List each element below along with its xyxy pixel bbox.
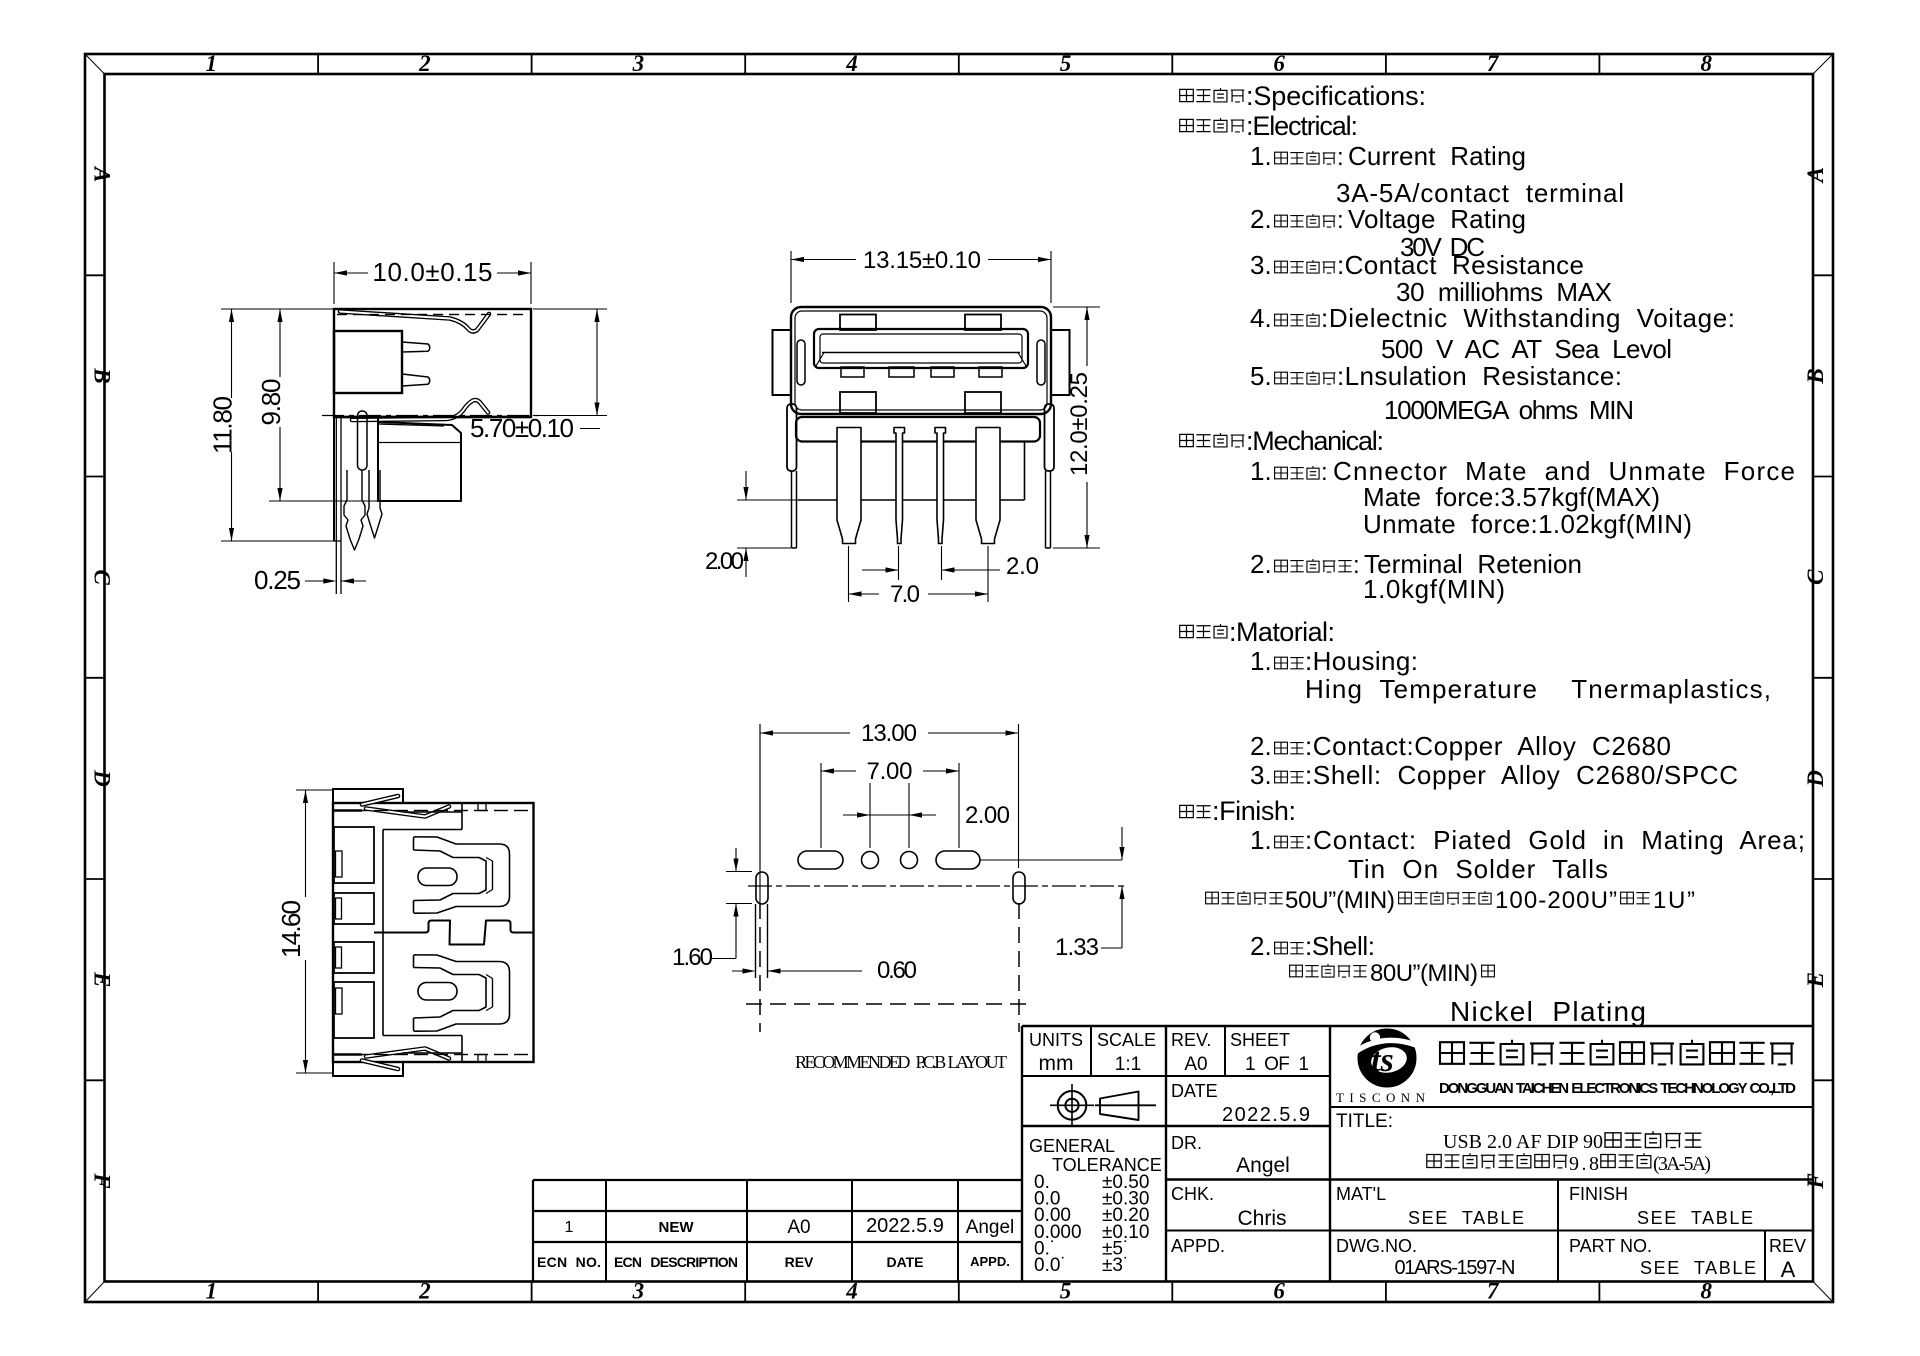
side view: hidden line top redraw bbox=[337, 314, 528, 316]
svg-text:12.0±0.25: 12.0±0.25 bbox=[1066, 372, 1093, 476]
svg-text:500 V AC AT Sea Levol: 500 V AC AT Sea Levol bbox=[1381, 334, 1672, 364]
svg-text::Mechanical:: :Mechanical: bbox=[1246, 426, 1384, 456]
svg-text:5.: 5. bbox=[1250, 361, 1272, 391]
svg-text:Tin On Solder Talls: Tin On Solder Talls bbox=[1348, 854, 1608, 884]
front view: right side tab bbox=[1045, 404, 1055, 471]
svg-text:11.80: 11.80 bbox=[208, 396, 238, 454]
top view: main outline bbox=[333, 803, 534, 1062]
pcb: side slot right bbox=[1013, 872, 1025, 904]
svg-text:REV: REV bbox=[1769, 1236, 1806, 1256]
dimension 10.0±0.15 bbox=[333, 262, 335, 304]
svg-text:2: 2 bbox=[418, 1279, 431, 1304]
svg-text:DATE: DATE bbox=[886, 1254, 923, 1270]
top view: plastic divider bbox=[382, 830, 384, 1036]
front view: pin 4 bbox=[976, 428, 1000, 544]
dimension 2.00 left bbox=[737, 499, 830, 501]
pcb: dimension 0.60 bbox=[732, 970, 751, 972]
projection symbol cone bbox=[1095, 1104, 1156, 1106]
svg-text:F: F bbox=[1803, 1173, 1828, 1189]
svg-text:ECN NO.: ECN NO. bbox=[537, 1254, 601, 1270]
logo circle bbox=[1358, 1029, 1416, 1087]
svg-text:mm: mm bbox=[1039, 1052, 1074, 1075]
svg-text:SHEET: SHEET bbox=[1230, 1030, 1290, 1050]
svg-text:1.: 1. bbox=[1250, 646, 1272, 676]
svg-text:50U”(MIN): 50U”(MIN) bbox=[1285, 887, 1395, 914]
side view: fork pin 2 bbox=[367, 470, 382, 538]
top view: central band zigzag bbox=[374, 921, 533, 945]
front view: left leg bbox=[791, 471, 793, 548]
svg-text:1U”: 1U” bbox=[1653, 887, 1695, 914]
top view: bottom latch bbox=[362, 1061, 398, 1070]
pcb: left vertical line bbox=[759, 724, 761, 903]
pcb: dimension 1.33 bbox=[1121, 827, 1123, 860]
side view: slot in leg bbox=[358, 411, 368, 470]
side view: bottom latch spring bbox=[352, 400, 488, 420]
svg-text:1.60: 1.60 bbox=[672, 944, 713, 971]
side view: lower housing body bbox=[378, 417, 461, 501]
projection symbol circle bbox=[1058, 1091, 1087, 1120]
front view: pin 3 bbox=[935, 428, 946, 544]
svg-text:RECOMMENDED P.C.B LAYOUT: RECOMMENDED P.C.B LAYOUT bbox=[795, 1052, 1007, 1072]
svg-text:ECN DESCRIPTION: ECN DESCRIPTION bbox=[614, 1254, 738, 1270]
dimension 2.0 bottom bbox=[898, 546, 900, 580]
svg-text:3.: 3. bbox=[1250, 250, 1272, 280]
svg-text:14.60: 14.60 bbox=[276, 900, 306, 958]
top view: dashed redraw bbox=[334, 810, 533, 812]
top view: top cap bbox=[333, 789, 403, 803]
svg-text:10.0±0.15: 10.0±0.15 bbox=[373, 257, 493, 287]
dimension 7.0 bbox=[848, 546, 850, 602]
svg-text:Chris: Chris bbox=[1237, 1207, 1286, 1230]
svg-text:UNITS: UNITS bbox=[1029, 1030, 1083, 1050]
dimension 5.70±0.10 bbox=[533, 308, 607, 310]
svg-text:Angel: Angel bbox=[966, 1217, 1015, 1238]
svg-text::Shell:: :Shell: bbox=[1305, 931, 1375, 961]
front view: rear pedestal bbox=[798, 499, 1025, 501]
svg-text:C: C bbox=[1803, 569, 1828, 585]
svg-text:2.: 2. bbox=[1250, 931, 1272, 961]
drawing border inner frame bbox=[105, 74, 1814, 1282]
svg-text::Matorial:: :Matorial: bbox=[1229, 617, 1335, 647]
pcb: pad hole 2 bbox=[901, 852, 918, 869]
svg-text:DWG.NO.: DWG.NO. bbox=[1336, 1236, 1417, 1256]
svg-text:2.: 2. bbox=[1250, 731, 1272, 761]
top view: cell slots bbox=[336, 851, 343, 877]
side view: bottom centerline dash-dot bbox=[322, 415, 545, 417]
svg-text:2.: 2. bbox=[1250, 204, 1272, 234]
pcb: centerline bbox=[748, 885, 1128, 887]
svg-text:NEW: NEW bbox=[659, 1219, 695, 1236]
svg-text:01ARS-1597-N: 01ARS-1597-N bbox=[1395, 1257, 1516, 1279]
svg-text::: : bbox=[1337, 207, 1344, 234]
front view: lower body bbox=[796, 417, 1040, 442]
svg-text:Nickel Plating: Nickel Plating bbox=[1450, 996, 1646, 1027]
svg-text:TISCONN: TISCONN bbox=[1336, 1090, 1432, 1105]
svg-text:Angel: Angel bbox=[1236, 1154, 1290, 1177]
spec heading Electrical bbox=[1180, 119, 1194, 131]
svg-text:7: 7 bbox=[1487, 1279, 1500, 1304]
dimension 9.80 bbox=[269, 500, 378, 502]
side view: lower contact bbox=[402, 374, 430, 386]
company name chinese bbox=[1440, 1042, 1464, 1064]
svg-text:5.70±0.10: 5.70±0.10 bbox=[470, 413, 574, 443]
svg-text:1: 1 bbox=[206, 51, 218, 76]
svg-text:B: B bbox=[90, 367, 115, 383]
side view: fork pin 1 bbox=[344, 470, 365, 550]
front view: shell inner line bbox=[795, 311, 1047, 410]
front view: tongue bbox=[814, 329, 1028, 368]
top view: left contact cells bbox=[334, 827, 374, 883]
svg-text:8: 8 bbox=[1700, 51, 1712, 76]
side view: hidden line top bbox=[337, 314, 528, 316]
svg-text:E: E bbox=[1803, 972, 1828, 988]
border zone ticks bbox=[317, 54, 319, 74]
top view: dashed lines bbox=[334, 810, 533, 812]
pcb: pad slot 2 bbox=[936, 851, 980, 869]
svg-text:D: D bbox=[90, 769, 115, 787]
front view: shell outer bbox=[791, 307, 1051, 414]
svg-text::Contact:Copper Alloy C2680: :Contact:Copper Alloy C2680 bbox=[1305, 731, 1671, 761]
svg-text:A: A bbox=[90, 165, 115, 182]
svg-text:100-200U”: 100-200U” bbox=[1495, 887, 1617, 914]
svg-text:9.8: 9.8 bbox=[1569, 1153, 1599, 1175]
spec plating line mixed bbox=[1206, 892, 1219, 904]
svg-text:GENERAL: GENERAL bbox=[1029, 1136, 1115, 1156]
svg-text:SEE TABLE: SEE TABLE bbox=[1637, 1208, 1753, 1228]
dimension 0.25 bbox=[305, 580, 332, 582]
svg-text:1000MEGA ohms MIN: 1000MEGA ohms MIN bbox=[1384, 395, 1634, 425]
front view: pin 1 bbox=[837, 428, 861, 544]
front view: contact slots under tongue bbox=[841, 367, 864, 377]
svg-text:5: 5 bbox=[1060, 1279, 1072, 1304]
svg-text:0.0˙: 0.0˙ bbox=[1034, 1255, 1067, 1276]
svg-text::Electrical:: :Electrical: bbox=[1246, 111, 1358, 141]
svg-text:D: D bbox=[1803, 770, 1828, 788]
svg-text:1: 1 bbox=[565, 1219, 574, 1236]
svg-text:3.: 3. bbox=[1250, 760, 1272, 790]
svg-text:MAT'L: MAT'L bbox=[1336, 1184, 1386, 1204]
svg-text:7.0: 7.0 bbox=[890, 581, 920, 608]
dimension 14.60 bbox=[296, 789, 333, 791]
svg-text:5: 5 bbox=[1060, 51, 1072, 76]
svg-text:7: 7 bbox=[1487, 51, 1500, 76]
svg-text:0.25: 0.25 bbox=[254, 565, 301, 595]
svg-text:Voltage Rating: Voltage Rating bbox=[1348, 204, 1526, 234]
pcb: pad slot 1 bbox=[798, 851, 843, 869]
svg-text:ts: ts bbox=[1371, 1042, 1394, 1079]
svg-text:1.0kgf(MIN): 1.0kgf(MIN) bbox=[1363, 574, 1505, 604]
pcb: dimension 7.00 bbox=[820, 763, 822, 848]
svg-text:USB 2.0 AF DIP 90: USB 2.0 AF DIP 90 bbox=[1443, 1131, 1603, 1153]
pcb: side slot left bbox=[756, 872, 768, 904]
svg-text:9.80: 9.80 bbox=[256, 379, 286, 426]
side view: upper contact bbox=[402, 342, 430, 352]
top view: fork contact -1 bbox=[414, 955, 510, 1031]
svg-text:F: F bbox=[90, 1172, 115, 1188]
svg-text:2022.5.9: 2022.5.9 bbox=[866, 1215, 944, 1237]
pcb: reference line right bbox=[980, 859, 1122, 861]
svg-text:REV: REV bbox=[785, 1254, 814, 1270]
svg-text:SCALE: SCALE bbox=[1097, 1030, 1156, 1050]
svg-text:PART NO.: PART NO. bbox=[1569, 1236, 1652, 1256]
dimension 12.0±0.25 bbox=[1053, 306, 1100, 308]
svg-text:6: 6 bbox=[1273, 51, 1285, 76]
svg-text:B: B bbox=[1803, 368, 1828, 384]
svg-text:2.0: 2.0 bbox=[1006, 553, 1039, 580]
pcb: pad hole 1 bbox=[862, 852, 879, 869]
top view: bottom cap bbox=[333, 1062, 403, 1076]
svg-text:13.15±0.10: 13.15±0.10 bbox=[863, 247, 981, 274]
svg-text:4: 4 bbox=[845, 51, 858, 76]
svg-text:4.: 4. bbox=[1250, 303, 1272, 333]
svg-text:Current Rating: Current Rating bbox=[1348, 141, 1526, 171]
svg-text:DATE: DATE bbox=[1171, 1081, 1218, 1101]
svg-text:A: A bbox=[1803, 167, 1828, 184]
front view: right leg bbox=[1045, 471, 1047, 548]
svg-text:REV.: REV. bbox=[1171, 1030, 1211, 1050]
pcb: dimension 13.00 bbox=[759, 724, 761, 868]
side view: housing block bbox=[334, 331, 402, 393]
front view: left flange bbox=[773, 330, 792, 395]
front view: mid latch openings bbox=[840, 392, 876, 413]
svg-text:DONGGUAN TAICHEN ELECTRONICS: DONGGUAN TAICHEN ELECTRONICS TECHNOLOGY … bbox=[1439, 1080, 1796, 1097]
pcb: dimension 2.00 bbox=[869, 783, 871, 848]
svg-text:4: 4 bbox=[845, 1279, 858, 1304]
svg-text:(3A-5A): (3A-5A) bbox=[1653, 1153, 1711, 1175]
front view: top latch openings bbox=[840, 315, 876, 331]
svg-text:13.00: 13.00 bbox=[861, 720, 917, 747]
svg-text:A0: A0 bbox=[1184, 1054, 1207, 1075]
side view: shell outline bbox=[334, 309, 531, 417]
dimension 13.15±0.10 bbox=[790, 251, 792, 303]
svg-text:FINISH: FINISH bbox=[1569, 1184, 1628, 1204]
spec heading Mechanical bbox=[1180, 434, 1194, 446]
dimension 11.80 bbox=[221, 308, 334, 310]
svg-text:SEE TABLE: SEE TABLE bbox=[1408, 1208, 1524, 1228]
front view: left side tab bbox=[787, 404, 797, 471]
svg-text:3: 3 bbox=[632, 1279, 645, 1304]
svg-text:C: C bbox=[90, 569, 115, 585]
svg-text:1 OF 1: 1 OF 1 bbox=[1245, 1054, 1309, 1075]
svg-text:8: 8 bbox=[1700, 1279, 1712, 1304]
svg-text:3: 3 bbox=[632, 51, 645, 76]
svg-text::Contact Resistance: :Contact Resistance bbox=[1337, 250, 1584, 280]
svg-text::Shell: Copper Alloy C2680/: :Shell: Copper Alloy C2680/SPCC bbox=[1305, 760, 1738, 790]
front view: side slots bbox=[797, 340, 805, 385]
svg-text:0.60: 0.60 bbox=[877, 957, 917, 984]
svg-text:1.: 1. bbox=[1250, 456, 1272, 486]
svg-text::Specifications:: :Specifications: bbox=[1246, 81, 1426, 111]
svg-text:1.33: 1.33 bbox=[1055, 934, 1099, 961]
svg-text:E: E bbox=[90, 971, 115, 987]
svg-text:SEE TABLE: SEE TABLE bbox=[1640, 1258, 1756, 1278]
pcb: 0.60 feature lines bbox=[755, 904, 757, 978]
svg-text:6: 6 bbox=[1273, 1279, 1285, 1304]
spec shell plating mixed bbox=[1290, 965, 1303, 977]
svg-text:1: 1 bbox=[206, 1279, 218, 1304]
spec heading Finish bbox=[1180, 805, 1194, 817]
svg-text:2022.5.9: 2022.5.9 bbox=[1222, 1104, 1310, 1126]
svg-text:CHK.: CHK. bbox=[1171, 1184, 1214, 1204]
svg-text:APPD.: APPD. bbox=[970, 1254, 1010, 1269]
svg-text:Unmate force:1.02kgf(MIN): Unmate force:1.02kgf(MIN) bbox=[1363, 509, 1692, 539]
svg-text:7.00: 7.00 bbox=[867, 758, 913, 785]
top view: small top tabs bbox=[478, 803, 486, 811]
spec heading Material bbox=[1180, 625, 1194, 637]
svg-text:A: A bbox=[1781, 1257, 1796, 1282]
title block gridlines bbox=[1022, 1025, 1813, 1027]
svg-text::: : bbox=[1353, 552, 1360, 579]
title line 2 bbox=[1427, 1155, 1441, 1168]
svg-text:APPD.: APPD. bbox=[1171, 1236, 1225, 1256]
svg-text::: : bbox=[1321, 459, 1328, 486]
svg-text:DR.: DR. bbox=[1171, 1133, 1202, 1153]
svg-text:1.: 1. bbox=[1250, 825, 1272, 855]
svg-text:80U”(MIN): 80U”(MIN) bbox=[1370, 960, 1478, 987]
svg-text::Housing:: :Housing: bbox=[1305, 646, 1418, 676]
svg-text::Finish:: :Finish: bbox=[1212, 796, 1296, 826]
front view: pin 2 bbox=[894, 428, 905, 544]
svg-text::Contact: Piated Gold in M: :Contact: Piated Gold in Mating Area; bbox=[1305, 825, 1805, 855]
svg-text:±3˙: ±3˙ bbox=[1102, 1255, 1129, 1276]
front view: right flange bbox=[1051, 330, 1070, 395]
revision table grid bbox=[533, 1179, 1022, 1181]
svg-text::: : bbox=[1337, 144, 1344, 171]
pcb: dashed outline bbox=[759, 903, 761, 1032]
side view: thin shell leg bbox=[333, 417, 335, 541]
svg-text:TITLE:: TITLE: bbox=[1336, 1111, 1393, 1132]
svg-text:A0: A0 bbox=[787, 1217, 810, 1238]
svg-text:2.00: 2.00 bbox=[965, 802, 1010, 829]
border corner diagonals bbox=[85, 54, 105, 74]
svg-text:1:1: 1:1 bbox=[1115, 1054, 1141, 1075]
svg-text::Lnsulation Resistance:: :Lnsulation Resistance: bbox=[1337, 361, 1622, 391]
svg-text::Dielectnic Withstanding Voi: :Dielectnic Withstanding Voitage: bbox=[1321, 303, 1735, 333]
svg-text:Hing Temperature Tnermapla: Hing Temperature Tnermaplastics, bbox=[1305, 674, 1771, 704]
pcb: dimension 1.60 bbox=[726, 871, 752, 873]
spec heading Specifications bbox=[1180, 89, 1194, 101]
svg-text:2: 2 bbox=[418, 51, 431, 76]
svg-text:1.: 1. bbox=[1250, 141, 1272, 171]
side view: top latch spring bbox=[340, 312, 489, 332]
svg-text:2.00: 2.00 bbox=[705, 548, 744, 575]
svg-text:2.: 2. bbox=[1250, 549, 1272, 579]
top view: top latch bbox=[362, 796, 398, 805]
svg-text:Mate force:3.57kgf(MAX): Mate force:3.57kgf(MAX) bbox=[1363, 482, 1660, 512]
top view: fork contact 1 bbox=[414, 837, 510, 913]
